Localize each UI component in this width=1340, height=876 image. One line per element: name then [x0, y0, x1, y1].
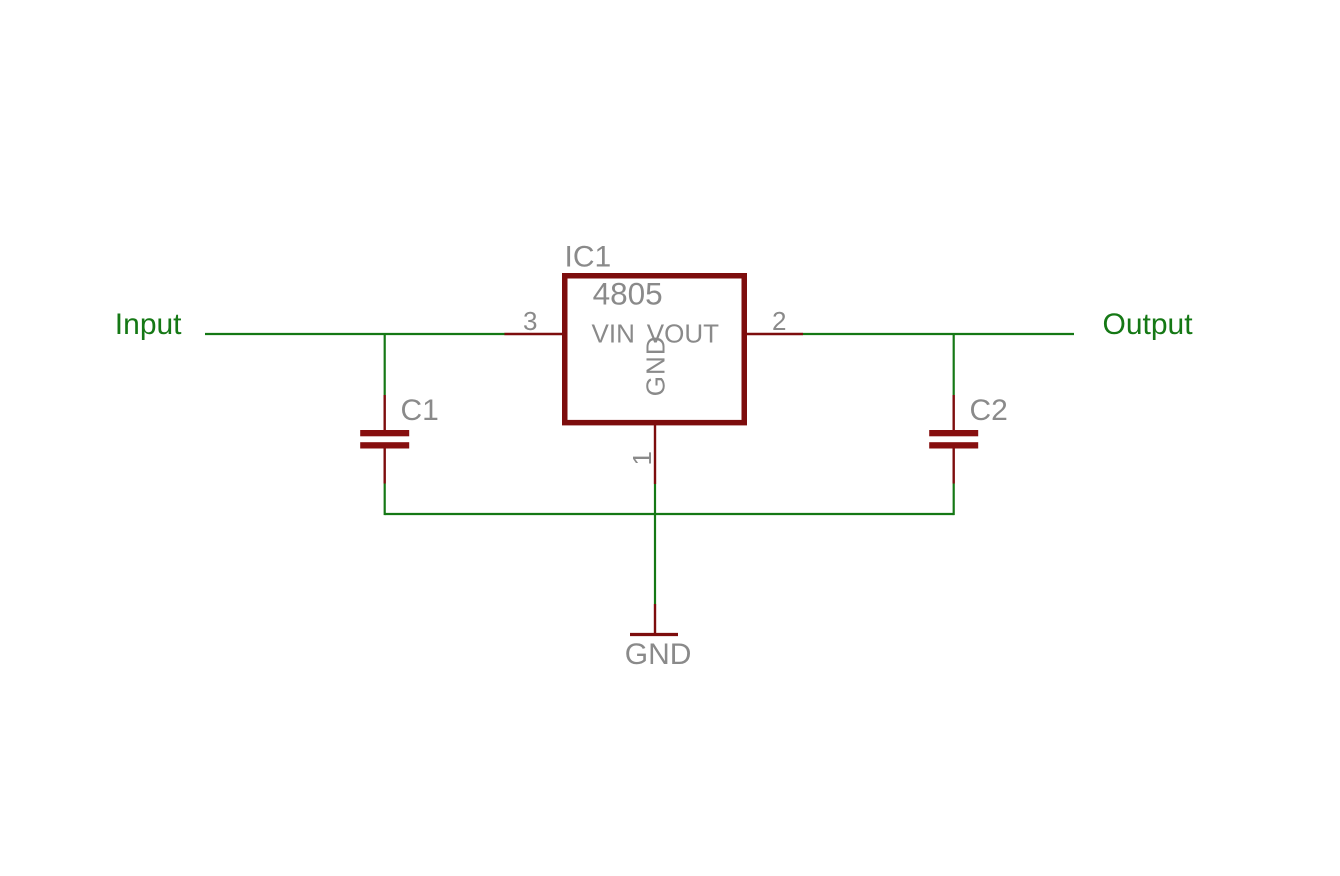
svg-text:3: 3 [523, 306, 537, 336]
svg-text:C2: C2 [970, 394, 1008, 427]
capacitor C1 bottom lead [384, 449, 386, 484]
capacitor C1 bottom plate [360, 442, 409, 448]
svg-text:IC1: IC1 [565, 241, 612, 274]
svg-text:GND: GND [625, 638, 692, 671]
wire net Output vertical drop to C2 [953, 334, 955, 395]
pin 1 wire (GND pin of IC1) [654, 425, 656, 484]
pin 3 wire (VIN pin of IC1) [505, 333, 563, 335]
capacitor C1 top plate [360, 430, 409, 436]
wire net Input horizontal [205, 333, 505, 335]
IC1 voltage regulator body box [565, 276, 745, 423]
wire net Output horizontal [803, 333, 1074, 335]
ground symbol stem [654, 604, 656, 634]
svg-text:Input: Input [115, 308, 182, 341]
svg-text:Output: Output [1103, 308, 1194, 341]
capacitor C2 top lead [953, 395, 955, 430]
svg-text:2: 2 [772, 306, 786, 336]
capacitor C1 top lead [384, 395, 386, 430]
ground symbol bar [630, 633, 678, 636]
wire net Input vertical drop to C1 [384, 334, 386, 395]
wire C1 to ground rail [384, 484, 386, 516]
capacitor C2 bottom plate [929, 442, 978, 448]
svg-text:C1: C1 [401, 394, 439, 427]
svg-text:4805: 4805 [593, 276, 663, 312]
capacitor C2 bottom lead [953, 449, 955, 484]
pin 2 wire (VOUT pin of IC1) [747, 333, 804, 335]
svg-text:1: 1 [627, 451, 657, 465]
capacitor C2 top plate [929, 430, 978, 436]
svg-text:GND: GND [641, 336, 671, 396]
wire ground rail horizontal [385, 513, 954, 515]
wire C2 to ground rail [953, 484, 955, 516]
svg-text:VIN: VIN [592, 319, 635, 349]
wire IC1 pin1 down to ground symbol [654, 484, 656, 604]
